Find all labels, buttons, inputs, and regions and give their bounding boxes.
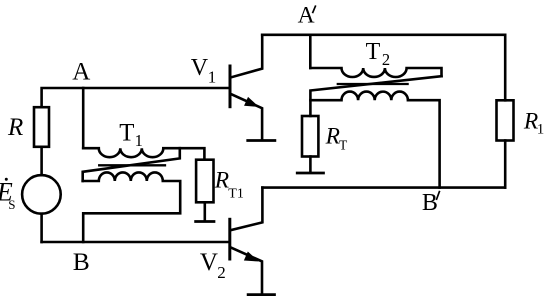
svg-text:B: B [73, 247, 90, 276]
svg-text:1: 1 [208, 67, 217, 86]
svg-text:2: 2 [217, 263, 226, 282]
svg-text:A: A [298, 2, 315, 28]
source Es circle [22, 175, 61, 214]
resistor R1 label [523, 108, 544, 137]
svg-text:R: R [7, 114, 23, 141]
transformer T2 winding crossover diagonal [310, 76, 441, 116]
wire: RT1 to ground [204, 202, 207, 220]
ground under RT1 [196, 220, 214, 223]
source Es label [0, 178, 15, 212]
svg-text:2: 2 [382, 50, 390, 69]
wire: source circle to B row [40, 214, 43, 242]
transistor V1 base bar [229, 66, 232, 107]
node B' prime tick [437, 192, 440, 200]
wire: node A' down to T2 primary [309, 35, 312, 68]
transformer T2 primary winding [310, 68, 441, 77]
transistor V1 emitter [231, 94, 262, 139]
transistor V1 label [191, 55, 217, 86]
wire: R to source circle [40, 147, 43, 175]
svg-text:V: V [200, 249, 218, 276]
wire: A' row from V1 collector to R1 [262, 33, 505, 36]
transformer T1 secondary winding [83, 172, 181, 242]
svg-text:R: R [214, 168, 229, 194]
resistor R1 [497, 100, 514, 140]
svg-text:1: 1 [135, 131, 143, 150]
node B' label [422, 190, 438, 216]
node A' label [298, 2, 315, 28]
wire: B' row from V2 collector to R1 [262, 186, 505, 189]
svg-text:S: S [8, 197, 15, 212]
wire: node A down to T1 primary [82, 88, 85, 148]
resistor RT [302, 116, 318, 157]
transformer T2 core bar [338, 83, 408, 85]
svg-text:A: A [72, 58, 90, 85]
resistor R [34, 107, 49, 147]
ground under V2 emitter [248, 293, 274, 296]
wire: RT to ground [309, 157, 312, 172]
ground under RT [297, 172, 323, 175]
transistor V2 base bar [228, 219, 231, 259]
svg-text:T: T [339, 137, 348, 152]
ground under V1 emitter [248, 139, 275, 142]
svg-text:T1: T1 [228, 186, 244, 201]
svg-text:T: T [119, 119, 134, 146]
transistor V1 collector [232, 35, 263, 77]
transformer T1 core bar [99, 164, 165, 166]
transistor V2 emitter arrow [245, 252, 258, 261]
transistor V1 emitter arrow [245, 98, 258, 107]
resistor RT1 [196, 160, 213, 203]
node A' prime tick [313, 6, 316, 12]
transistor V2 emitter [231, 248, 262, 294]
svg-text:R: R [325, 123, 340, 149]
resistor RT label [325, 123, 348, 152]
svg-text:B: B [422, 190, 438, 216]
transformer T2 secondary winding [310, 92, 439, 188]
transistor V2 collector [231, 188, 262, 230]
resistor RT1 label [214, 168, 244, 202]
transistor V2 label [200, 249, 226, 282]
transformer T1 label [119, 119, 143, 150]
transformer T1 primary winding [83, 148, 204, 160]
transformer T2 label [366, 39, 391, 69]
svg-text:V: V [191, 55, 209, 81]
wire: R1 down to B' row [504, 141, 507, 188]
transformer T1 winding crossover diagonal [83, 148, 180, 181]
wire: A' row down to R1 [504, 35, 507, 101]
svg-text:1: 1 [537, 122, 545, 138]
wire: A row from source branch to V1 base [42, 88, 229, 107]
svg-text:T: T [366, 39, 381, 65]
wire: B row to V2 base [42, 241, 229, 244]
